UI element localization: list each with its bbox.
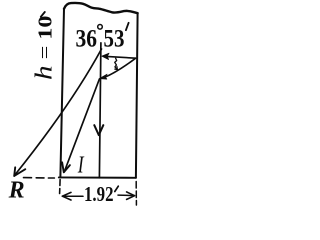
short resultant-direction arrowhead <box>99 74 107 79</box>
wavy angle leader <box>115 58 117 69</box>
right edge of wall <box>136 13 138 178</box>
prime after 53 <box>126 23 129 30</box>
resultant R shaft <box>14 49 101 176</box>
prime of 10' (rotated) <box>41 12 45 17</box>
degree symbol of 36°53' <box>98 25 103 30</box>
prime after 1.92 <box>115 186 119 191</box>
svg-text:36: 36 <box>76 25 98 52</box>
open arrowhead at base of resultant line <box>62 162 70 172</box>
svg-text:h = 10: h = 10 <box>32 16 58 81</box>
resultant R open arrowhead <box>14 167 25 176</box>
wavy top edge of wall <box>64 3 138 13</box>
left edge dashed extension <box>59 180 62 194</box>
dimension left arrowhead <box>62 192 71 200</box>
vertical force line I <box>99 43 101 178</box>
horizontal force arrow shaft <box>104 56 136 58</box>
dimension right arrowhead <box>127 192 135 200</box>
down arrowhead on I line <box>94 125 103 135</box>
svg-text:R: R <box>8 178 25 204</box>
svg-text:I: I <box>77 151 85 178</box>
wavy leader arrow tip <box>115 66 118 69</box>
right edge dashed extension <box>135 182 137 206</box>
svg-text:53: 53 <box>104 25 125 52</box>
short resultant-direction arrow shaft <box>104 58 135 77</box>
horizontal force arrowhead <box>102 53 109 59</box>
bottom edge of wall base <box>59 176 136 178</box>
dimension right arrow shaft <box>118 194 134 197</box>
dimension left arrow shaft <box>63 195 84 197</box>
dashed line from R to wall base <box>24 177 55 179</box>
svg-text:1.92: 1.92 <box>84 182 114 206</box>
resultant line of action through base <box>64 79 99 172</box>
left edge of wall <box>60 9 64 177</box>
label h = 10 (rotated) <box>32 16 58 81</box>
